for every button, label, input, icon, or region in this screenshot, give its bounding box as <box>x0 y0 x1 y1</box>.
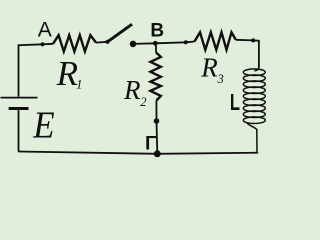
svg-text:R: R <box>56 54 78 93</box>
svg-text:Γ: Γ <box>145 133 157 155</box>
svg-text:Β: Β <box>150 21 164 42</box>
svg-text:Α: Α <box>38 18 52 41</box>
svg-text:2: 2 <box>140 95 146 109</box>
svg-text:E: E <box>32 103 54 146</box>
svg-text:R: R <box>200 52 218 82</box>
svg-text:R: R <box>123 75 141 105</box>
svg-text:3: 3 <box>217 72 224 86</box>
svg-text:1: 1 <box>76 77 83 92</box>
svg-text:L: L <box>230 90 240 115</box>
